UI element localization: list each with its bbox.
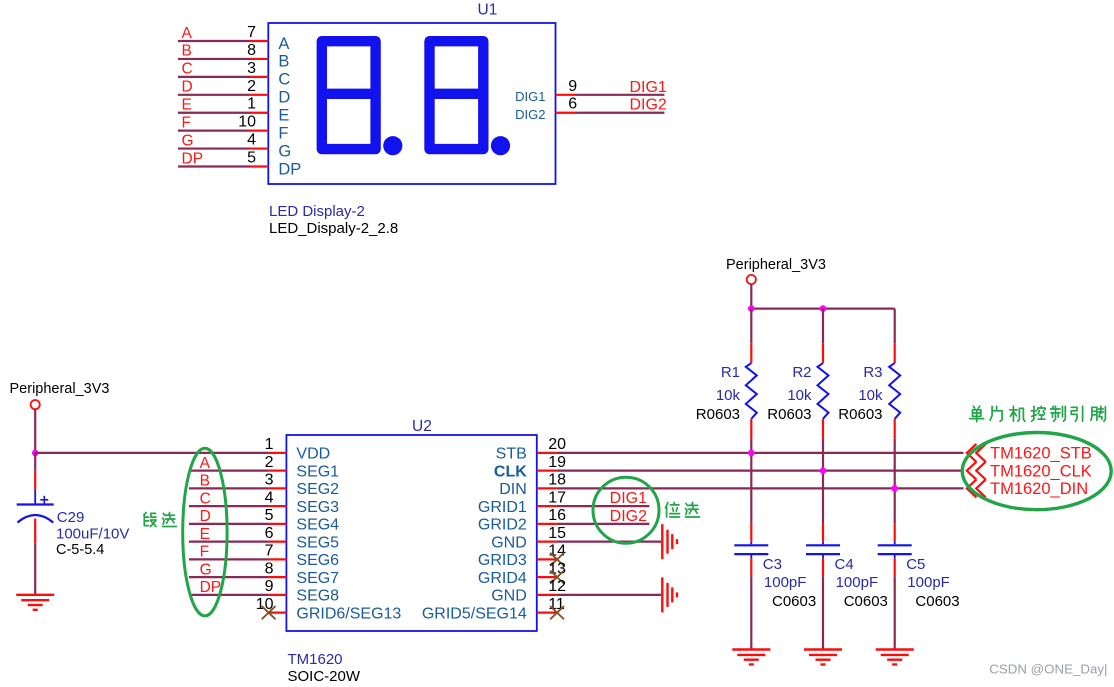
- U1 pin 1 number: [247, 96, 256, 113]
- wire power stem (right): [750, 284, 752, 308]
- svg-text:7: 7: [265, 543, 274, 560]
- svg-text:1: 1: [265, 436, 274, 453]
- svg-text:100pF: 100pF: [764, 574, 807, 591]
- svg-text:100pF: 100pF: [907, 574, 950, 591]
- wire R1 to bus/cap: [750, 439, 752, 524]
- svg-text:DIG1: DIG1: [629, 79, 666, 96]
- net label B: [182, 43, 192, 60]
- svg-text:GRID4: GRID4: [478, 570, 527, 587]
- U2 pin 2 number: [265, 454, 274, 471]
- svg-text:R1: R1: [721, 364, 740, 381]
- U1 pin name C: [278, 71, 290, 89]
- U1 footprint: [269, 220, 398, 237]
- U2 pin name SEG4: [296, 517, 339, 534]
- svg-text:U1: U1: [478, 2, 498, 19]
- svg-text:E: E: [278, 107, 289, 125]
- U2 pin name VDD: [296, 446, 330, 463]
- svg-text:C4: C4: [835, 556, 854, 573]
- svg-text:6: 6: [568, 96, 577, 113]
- U2 pin 5 wire: [189, 523, 287, 525]
- U1 pin 10 wire (F): [178, 130, 268, 132]
- svg-text:VDD: VDD: [296, 446, 330, 463]
- net label DIG1: [629, 79, 666, 96]
- U1 pin 8 wire (B): [178, 58, 268, 60]
- U2 pin 10 number: [256, 596, 274, 613]
- svg-text:10: 10: [238, 114, 256, 131]
- U2 pin 4 wire: [189, 505, 287, 507]
- svg-text:GRID3: GRID3: [478, 552, 527, 569]
- resistor R1: [746, 309, 757, 439]
- net port label TM1620_CLK: [990, 462, 1092, 480]
- svg-text:C0603: C0603: [772, 593, 816, 610]
- svg-text:17: 17: [548, 489, 566, 506]
- no-connect X pin 14: [550, 553, 564, 566]
- svg-text:GRID6/SEG13: GRID6/SEG13: [296, 605, 401, 622]
- svg-text:9: 9: [265, 578, 274, 595]
- svg-text:10k: 10k: [858, 387, 883, 404]
- decimal point 2: [491, 136, 510, 155]
- U1 pin 1 wire (E): [178, 112, 268, 114]
- U2 pin name DIN: [499, 481, 527, 498]
- U2 pin name CLK: [494, 463, 527, 480]
- U1 pin 8 number: [247, 42, 256, 59]
- U2 pin 12 number: [548, 578, 566, 595]
- R3 value 10k: [858, 387, 883, 404]
- wire C29 to ground: [34, 519, 36, 595]
- svg-text:DP: DP: [278, 160, 301, 178]
- U2 pin name GRID6/SEG13: [296, 605, 401, 622]
- svg-text:9: 9: [568, 78, 577, 95]
- net label C (U2): [200, 490, 211, 507]
- svg-text:C-5-5.4: C-5-5.4: [56, 542, 104, 558]
- wire R2 to bus/cap: [822, 439, 824, 524]
- U2 pin 16 wire: [537, 523, 650, 525]
- power flag Peripheral_3V3 (right) label: [726, 257, 826, 273]
- svg-text:SEG4: SEG4: [296, 517, 339, 534]
- svg-text:100pF: 100pF: [836, 574, 879, 591]
- U2 pin 1 stub: [269, 452, 287, 454]
- net label DIG2 (U2): [610, 508, 647, 525]
- R1 value 10k: [716, 387, 741, 404]
- wire C3 to ground: [750, 554, 752, 649]
- svg-text:GRID1: GRID1: [478, 499, 527, 516]
- net label F: [182, 114, 191, 131]
- U2 pin name GND: [491, 534, 527, 551]
- svg-text:2: 2: [265, 454, 274, 471]
- U1 pin 2 number: [247, 78, 256, 95]
- svg-text:TM1620: TM1620: [288, 651, 343, 668]
- U2 pin 11 stub: [537, 612, 557, 614]
- svg-text:SEG7: SEG7: [296, 570, 339, 587]
- svg-text:E: E: [182, 97, 192, 114]
- annotation text 单片机控制引脚: [970, 406, 1106, 422]
- svg-text:A: A: [278, 35, 289, 53]
- svg-text:DIG2: DIG2: [629, 97, 666, 114]
- R2 value 10k: [787, 387, 812, 404]
- svg-text:5: 5: [247, 150, 256, 167]
- ground (C4): [804, 650, 842, 665]
- U2 pin 2 wire: [189, 470, 287, 472]
- junction R1 bus: [748, 450, 755, 457]
- svg-text:3: 3: [247, 60, 256, 77]
- U2 pin 13 number: [548, 560, 566, 577]
- net port chevron TM1620_STB: [967, 444, 986, 462]
- U2 pin 20 wire (STB bus): [537, 452, 964, 454]
- svg-text:11: 11: [548, 596, 565, 613]
- capacitor C3 symbol: [734, 545, 768, 554]
- no-connect X pin 13: [550, 571, 564, 584]
- svg-text:3: 3: [265, 472, 274, 489]
- U2 pin 19 wire (CLK bus): [537, 470, 964, 472]
- U2 pin 8 wire: [189, 576, 287, 578]
- svg-text:6: 6: [265, 525, 274, 542]
- svg-text:10k: 10k: [787, 387, 812, 404]
- wire R3 to bus/cap: [894, 439, 896, 524]
- svg-text:C: C: [200, 490, 211, 507]
- svg-text:A: A: [200, 455, 211, 472]
- svg-text:1: 1: [247, 96, 256, 113]
- svg-text:5: 5: [265, 507, 274, 524]
- R1 footprint R0603: [696, 406, 740, 423]
- svg-text:16: 16: [548, 507, 566, 524]
- U2 pin 15 number: [548, 525, 566, 542]
- C4 footprint C0603: [844, 593, 888, 610]
- capacitor C29 symbol: [17, 496, 54, 523]
- watermark: [989, 662, 1107, 677]
- svg-text:C5: C5: [906, 556, 925, 573]
- svg-text:SOIC-20W: SOIC-20W: [288, 668, 361, 685]
- svg-text:20: 20: [548, 436, 566, 453]
- U2 pin 11 number: [548, 596, 565, 613]
- svg-text:DIG2: DIG2: [610, 508, 647, 525]
- U2 pin name SEG5: [296, 534, 339, 551]
- svg-text:C: C: [182, 61, 193, 78]
- svg-text:13: 13: [548, 560, 566, 577]
- svg-text:2: 2: [247, 78, 256, 95]
- U1 pin name F: [278, 124, 288, 142]
- junction top bus / R1: [748, 305, 755, 312]
- svg-text:GND: GND: [491, 588, 527, 605]
- capacitor C4 symbol: [806, 545, 840, 554]
- decimal point 1: [383, 136, 402, 155]
- IC U2 body: [286, 435, 536, 631]
- svg-text:SEG3: SEG3: [296, 499, 339, 516]
- net label B (U2): [200, 473, 210, 490]
- U1 pin 5 number: [247, 150, 256, 167]
- svg-text:STB: STB: [496, 446, 527, 463]
- R1 designator: [721, 364, 740, 381]
- LED display U1 body: [268, 23, 555, 184]
- svg-text:18: 18: [548, 472, 566, 489]
- net port chevron TM1620_DIN: [967, 479, 986, 497]
- junction R2 bus: [820, 467, 827, 474]
- svg-text:14: 14: [548, 543, 566, 560]
- wire C5 top pin: [894, 524, 896, 544]
- net label DP: [182, 150, 204, 167]
- net label A: [182, 25, 193, 42]
- svg-text:B: B: [278, 53, 289, 71]
- net label DIG2: [629, 97, 666, 114]
- svg-text:R2: R2: [792, 364, 811, 381]
- U1 part name: [269, 203, 365, 220]
- C5 designator: [906, 556, 925, 573]
- ground (C5): [876, 650, 914, 665]
- U2 pin 9 number: [265, 578, 274, 595]
- 7-segment digit 1: [322, 41, 376, 149]
- power flag Peripheral_3V3 (left) label: [10, 381, 110, 397]
- U1 pin 10 number: [238, 114, 256, 131]
- svg-text:15: 15: [548, 525, 566, 542]
- U1 pin name B: [278, 53, 289, 71]
- svg-text:GRID5/SEG14: GRID5/SEG14: [422, 605, 527, 622]
- annotation circle (digit select): [593, 477, 659, 543]
- net label E (U2): [200, 526, 210, 543]
- U2 pin 10 stub: [269, 612, 287, 614]
- svg-text:SEG5: SEG5: [296, 534, 339, 551]
- R2 designator: [792, 364, 811, 381]
- ground (U2 pin 12): [662, 577, 677, 612]
- R2 footprint R0603: [767, 406, 811, 423]
- svg-text:F: F: [278, 124, 288, 142]
- svg-text:4: 4: [265, 489, 274, 506]
- net label D (U2): [200, 508, 211, 525]
- svg-text:SEG6: SEG6: [296, 552, 339, 569]
- wire power to node: [34, 409, 36, 453]
- U2 pin 17 wire: [537, 505, 650, 507]
- U1 pin 4 wire (G): [178, 147, 268, 149]
- U2 pin 14 stub: [537, 558, 557, 560]
- svg-text:D: D: [200, 508, 211, 525]
- net port label TM1620_STB: [990, 445, 1092, 463]
- annotation ellipse (MCU pins): [962, 433, 1111, 510]
- svg-text:F: F: [182, 114, 191, 131]
- C5 value 100pF: [907, 574, 950, 591]
- svg-text:19: 19: [548, 454, 566, 471]
- svg-text:4: 4: [247, 132, 256, 149]
- svg-text:B: B: [182, 43, 192, 60]
- U2 pin name SEG1: [296, 463, 339, 480]
- U2 pin 6 number: [265, 525, 274, 542]
- svg-text:G: G: [278, 142, 291, 160]
- U2 pin 6 wire: [189, 541, 287, 543]
- svg-text:G: G: [200, 561, 212, 578]
- svg-text:SEG2: SEG2: [296, 481, 339, 498]
- svg-text:DIN: DIN: [499, 481, 527, 498]
- U1 pin name G: [278, 142, 291, 160]
- svg-text:8: 8: [265, 560, 274, 577]
- U2 pin 5 number: [265, 507, 274, 524]
- 7-segment digit 2: [430, 41, 484, 149]
- R3 designator: [863, 364, 882, 381]
- net label G (U2): [200, 561, 212, 578]
- net label G: [182, 132, 194, 149]
- U1 pin name A: [278, 35, 289, 53]
- svg-text:GND: GND: [491, 534, 527, 551]
- net label F (U2): [200, 544, 209, 561]
- net label C: [182, 61, 193, 78]
- C29 value: [56, 526, 129, 543]
- svg-text:DIG1: DIG1: [515, 89, 545, 104]
- capacitor C5 symbol: [878, 545, 912, 554]
- U1 pin 3 number: [247, 60, 256, 77]
- net port label TM1620_DIN: [990, 480, 1088, 498]
- svg-text:DIG1: DIG1: [610, 490, 647, 507]
- svg-text:C: C: [278, 71, 290, 89]
- U2 pin 16 number: [548, 507, 566, 524]
- U2 pin name GRID5/SEG14: [422, 605, 527, 622]
- net label A (U2): [200, 455, 211, 472]
- U1 pin name D: [278, 89, 290, 107]
- svg-text:G: G: [182, 132, 194, 149]
- svg-text:R0603: R0603: [838, 406, 882, 423]
- C29 footprint: [56, 542, 104, 558]
- U1 pin name DP: [278, 160, 301, 178]
- wire C4 top pin: [822, 524, 824, 544]
- svg-text:CLK: CLK: [494, 463, 527, 480]
- svg-text:CSDN @ONE_Day|: CSDN @ONE_Day|: [989, 662, 1107, 677]
- U2 pin 9 wire: [189, 594, 287, 596]
- no-connect X pin 10: [262, 606, 276, 619]
- svg-text:U2: U2: [412, 418, 432, 435]
- net label DP (U2): [200, 579, 222, 596]
- svg-text:B: B: [200, 473, 210, 490]
- svg-text:D: D: [182, 79, 193, 96]
- U2 pin 7 wire: [189, 558, 287, 560]
- wire 3V3 top bus: [751, 308, 894, 310]
- U2 pin 12 wire (GND): [537, 594, 661, 596]
- no-connect X pin 11: [550, 606, 564, 619]
- svg-text:Peripheral_3V3: Peripheral_3V3: [10, 381, 110, 397]
- U1 pin name E: [278, 107, 289, 125]
- C3 designator: [763, 556, 782, 573]
- svg-text:SEG1: SEG1: [296, 463, 339, 480]
- U2 pin name GND: [491, 588, 527, 605]
- svg-text:C0603: C0603: [915, 593, 959, 610]
- U2 pin 20 number: [548, 436, 566, 453]
- svg-text:7: 7: [247, 24, 256, 41]
- U2 pin 3 wire: [189, 487, 287, 489]
- svg-text:SEG8: SEG8: [296, 588, 339, 605]
- C29 designator: [57, 509, 85, 526]
- wire C3 top pin: [750, 524, 752, 544]
- U2 pin 18 number: [548, 472, 566, 489]
- svg-text:Peripheral_3V3: Peripheral_3V3: [726, 257, 826, 273]
- U2 pin 8 number: [265, 560, 274, 577]
- net label E: [182, 97, 192, 114]
- C4 value 100pF: [836, 574, 879, 591]
- annotation text 段选: [144, 512, 176, 526]
- U2 pin name SEG6: [296, 552, 339, 569]
- U2 designator: [412, 418, 432, 435]
- svg-text:C3: C3: [763, 556, 782, 573]
- svg-text:R0603: R0603: [767, 406, 811, 423]
- svg-text:GRID2: GRID2: [478, 517, 527, 534]
- net label D: [182, 79, 193, 96]
- U1 pin 7 number: [247, 24, 256, 41]
- svg-text:R0603: R0603: [696, 406, 740, 423]
- wire node to C29: [34, 453, 36, 505]
- U1 pin name DIG1: [515, 89, 545, 104]
- U2 pin 18 wire (DIN bus): [537, 487, 964, 489]
- svg-text:R3: R3: [863, 364, 882, 381]
- U2 pin 13 stub: [537, 576, 557, 578]
- U1 designator: [478, 2, 498, 19]
- U2 pin name STB: [496, 446, 527, 463]
- svg-text:DIG2: DIG2: [515, 107, 545, 122]
- U1 pin 6 wire (DIG2): [556, 112, 665, 114]
- U2 pin 7 number: [265, 543, 274, 560]
- junction top bus / R2: [820, 305, 827, 312]
- U2 pin 19 number: [548, 454, 566, 471]
- svg-text:DP: DP: [200, 579, 222, 596]
- U2 pin name GRID1: [478, 499, 527, 516]
- R3 footprint R0603: [838, 406, 882, 423]
- power flag Peripheral_3V3 (left) symbol: [31, 400, 40, 409]
- U1 pin name DIG2: [515, 107, 545, 122]
- svg-text:TM1620_STB: TM1620_STB: [990, 445, 1092, 463]
- ground (C3): [732, 650, 770, 665]
- U2 pin 15 wire (GND): [537, 541, 661, 543]
- U2 pin name GRID2: [478, 517, 527, 534]
- svg-text:E: E: [200, 526, 210, 543]
- resistor R3: [889, 309, 900, 439]
- svg-text:D: D: [278, 89, 290, 107]
- svg-text:C0603: C0603: [844, 593, 888, 610]
- annotation ellipse (segment select): [183, 448, 227, 616]
- C3 footprint C0603: [772, 593, 816, 610]
- U2 footprint: [288, 668, 361, 685]
- U2 part name: [288, 651, 343, 668]
- net port chevron TM1620_CLK: [967, 462, 986, 480]
- power flag Peripheral_3V3 (right) symbol: [747, 275, 756, 284]
- svg-text:LED_Dispaly-2_2.8: LED_Dispaly-2_2.8: [269, 220, 398, 237]
- U2 pin name SEG8: [296, 588, 339, 605]
- svg-text:12: 12: [548, 578, 566, 595]
- junction at C29/VDD node: [32, 450, 39, 457]
- U1 pin 9 wire (DIG1): [556, 94, 665, 96]
- svg-text:8: 8: [247, 42, 256, 59]
- U2 pin 3 number: [265, 472, 274, 489]
- svg-text:A: A: [182, 25, 193, 42]
- U2 pin name SEG2: [296, 481, 339, 498]
- wire VDD net to U2 pin 1: [35, 452, 268, 454]
- net label DIG1 (U2): [610, 490, 647, 507]
- U1 pin 6 number: [568, 96, 577, 113]
- U2 pin 17 number: [548, 489, 566, 506]
- U1 pin 7 wire (A): [178, 40, 268, 42]
- C3 value 100pF: [764, 574, 807, 591]
- svg-text:100uF/10V: 100uF/10V: [56, 526, 129, 543]
- annotation text 位选: [665, 502, 699, 517]
- svg-text:LED Display-2: LED Display-2: [269, 203, 365, 220]
- svg-text:C29: C29: [57, 509, 85, 526]
- wire C5 to ground: [894, 554, 896, 649]
- svg-text:10k: 10k: [716, 387, 741, 404]
- U1 pin 9 number: [568, 78, 577, 95]
- C4 designator: [835, 556, 854, 573]
- svg-text:TM1620_CLK: TM1620_CLK: [990, 462, 1092, 480]
- U1 pin 4 number: [247, 132, 256, 149]
- U2 pin 14 number: [548, 543, 566, 560]
- junction R3 bus: [891, 485, 898, 492]
- svg-text:TM1620_DIN: TM1620_DIN: [990, 480, 1088, 498]
- U2 pin name GRID3: [478, 552, 527, 569]
- wire C4 to ground: [822, 554, 824, 649]
- U2 pin name SEG7: [296, 570, 339, 587]
- svg-text:F: F: [200, 544, 209, 561]
- resistor R2: [818, 309, 829, 439]
- U1 pin 5 wire (DP): [178, 165, 268, 167]
